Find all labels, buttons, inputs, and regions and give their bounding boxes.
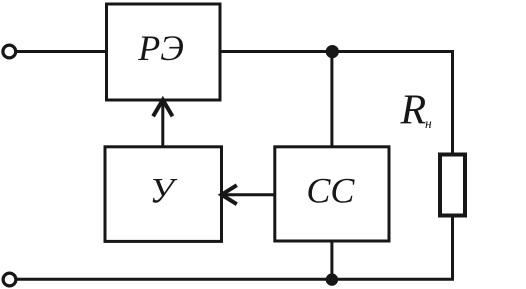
svg-text:СС: СС (306, 170, 355, 210)
svg-text:R: R (400, 87, 427, 133)
svg-text:РЭ: РЭ (137, 28, 184, 68)
svg-text:У: У (149, 170, 177, 210)
svg-text:н: н (425, 116, 432, 131)
